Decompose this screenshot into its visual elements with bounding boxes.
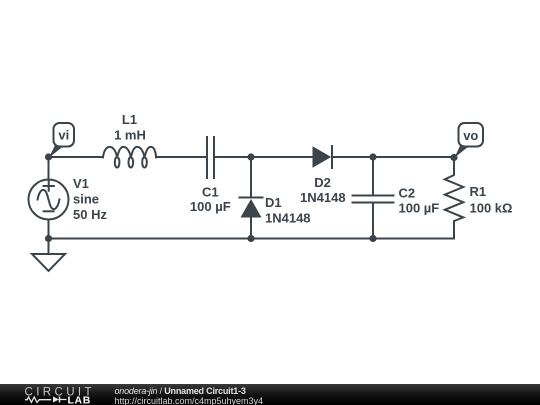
capacitor C1 <box>207 137 214 178</box>
wire bottom rail <box>49 238 455 240</box>
C2 value labels <box>399 185 440 215</box>
C1 value labels <box>190 185 231 215</box>
inductor L1 <box>103 147 156 168</box>
voltage source V1 <box>29 180 69 220</box>
svg-text:100 kΩ: 100 kΩ <box>470 201 513 216</box>
svg-text:1N4148: 1N4148 <box>300 190 346 205</box>
ground <box>32 254 65 271</box>
capacitor C2 <box>353 157 394 239</box>
svg-text:D1: D1 <box>265 195 282 210</box>
diode D2 <box>313 146 333 168</box>
svg-text:50 Hz: 50 Hz <box>73 207 107 222</box>
node V1 bottom junction dot <box>45 235 52 242</box>
logo resistor squiggle <box>25 397 51 402</box>
R1 value labels <box>470 184 513 216</box>
wire D2 cathode to vo node (node at C2 top) <box>332 156 454 158</box>
svg-text:vi: vi <box>58 128 69 143</box>
node vi junction dot <box>45 153 52 160</box>
svg-text:R1: R1 <box>470 184 487 199</box>
net label vi <box>49 123 74 158</box>
svg-text:V1: V1 <box>73 176 89 191</box>
node C2 top junction dot <box>369 153 376 160</box>
svg-text:LAB: LAB <box>68 395 91 405</box>
wire top rail left: vi node to L1 <box>49 156 104 158</box>
wire vi node to V1 top <box>48 157 50 180</box>
svg-text:D2: D2 <box>314 175 331 190</box>
svg-text:http://circuitlab.com/c4mp5uhy: http://circuitlab.com/c4mp5uhyem3y4 <box>115 396 264 405</box>
node vo junction dot <box>450 154 457 161</box>
svg-text:C1: C1 <box>202 185 219 200</box>
svg-text:1 mH: 1 mH <box>114 128 146 143</box>
L1 value labels <box>114 112 146 143</box>
logo diode symbol <box>53 397 59 403</box>
wire C1 to D2 anode (node at D1 top) <box>214 156 313 158</box>
svg-text:100 µF: 100 µF <box>190 199 231 214</box>
diode D1 <box>240 157 263 239</box>
svg-text:1N4148: 1N4148 <box>265 210 311 225</box>
svg-text:vo: vo <box>463 128 478 143</box>
D2 value labels <box>300 175 346 205</box>
node C2 bottom junction dot <box>369 235 376 242</box>
D1 value labels <box>265 195 311 226</box>
node D1 top junction dot <box>247 153 254 160</box>
node D1 bottom junction dot <box>247 235 254 242</box>
resistor R1 <box>445 157 464 239</box>
svg-text:onodera-jin / Unnamed Circuit1: onodera-jin / Unnamed Circuit1-3 <box>115 386 246 396</box>
wire V1 bottom to ground node <box>48 220 50 255</box>
svg-text:sine: sine <box>73 192 99 207</box>
svg-text:100 µF: 100 µF <box>399 200 440 215</box>
wire L1 to C1 <box>156 156 207 158</box>
svg-text:L1: L1 <box>122 112 137 127</box>
net label vo <box>455 123 484 158</box>
svg-text:C2: C2 <box>399 185 416 200</box>
footer bar <box>0 384 540 405</box>
V1 value labels <box>73 176 107 222</box>
